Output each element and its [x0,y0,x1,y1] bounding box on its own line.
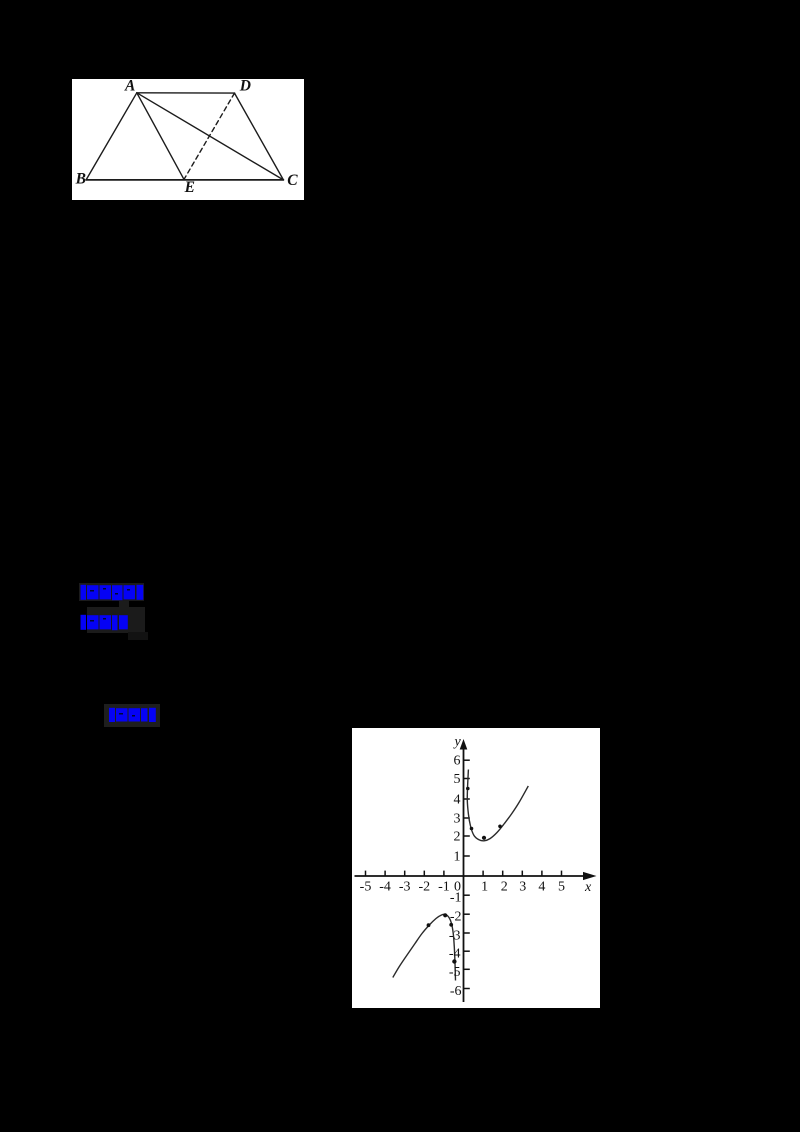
svg-text:-6: -6 [450,984,462,999]
svg-text:3: 3 [454,812,461,827]
svg-text:y: y [453,735,462,750]
svg-text:2: 2 [501,880,508,895]
svg-text:-5: -5 [360,880,372,895]
highlight box behind label 3 [104,704,160,727]
blue link label 2 [80,614,128,631]
svg-text:-1: -1 [450,891,462,906]
wire: side D-C [235,93,284,180]
svg-text:C: C [287,172,298,189]
svg-text:-3: -3 [449,929,461,944]
svg-text:-2: -2 [418,880,430,895]
svg-text:5: 5 [454,772,461,787]
marked points on curve [427,787,502,964]
svg-text:4: 4 [454,793,461,808]
highlight box behind label 2 [87,607,145,633]
axis letter labels [453,735,593,896]
y-axis arrowhead [460,739,468,750]
faint patch right-below label 2 [128,632,148,640]
svg-text:-1: -1 [438,880,450,895]
svg-text:D: D [239,79,251,95]
x-axis arrowhead [583,872,597,880]
figure 2: graph of y = x + 1/x on axes, white panel [352,728,600,1008]
x-axis [355,875,591,877]
svg-text:-3: -3 [399,880,411,895]
svg-text:B: B [75,170,86,187]
svg-text:6: 6 [454,754,461,769]
axis tick marks [366,760,562,988]
svg-text:1: 1 [454,850,461,865]
svg-text:3: 3 [519,880,526,895]
svg-text:-4: -4 [449,947,461,962]
svg-text:-4: -4 [379,880,391,895]
svg-text:5: 5 [558,880,565,895]
svg-text:4: 4 [538,880,545,895]
svg-text:x: x [584,880,592,895]
wire: side B-C (bottom edge) [86,179,283,181]
blue link label 1 [80,584,144,601]
curve upper branch of y = x + 1/x [467,770,528,841]
small dark tab below label 1 [119,600,129,608]
svg-text:2: 2 [454,830,461,845]
svg-text:A: A [124,79,135,94]
figure 1: geometry trapezoid ABCD with E, white panel [72,79,304,200]
wire: segment A-E [137,93,184,180]
svg-text:E: E [184,179,195,196]
wire: side A-B [86,93,137,180]
svg-text:1: 1 [481,880,488,895]
svg-text:-2: -2 [450,909,462,924]
wire: side A-D (top edge) [137,92,235,94]
blue link label 3 [109,707,156,723]
y-axis [463,745,465,1002]
wire: diagonal A-C [137,93,284,180]
axis number labels [360,880,565,895]
wire: dashed segment D-E [184,93,235,179]
highlight box behind label 1 [79,583,144,601]
svg-text:-5: -5 [449,965,461,980]
curve lower branch of y = x + 1/x [393,914,456,980]
